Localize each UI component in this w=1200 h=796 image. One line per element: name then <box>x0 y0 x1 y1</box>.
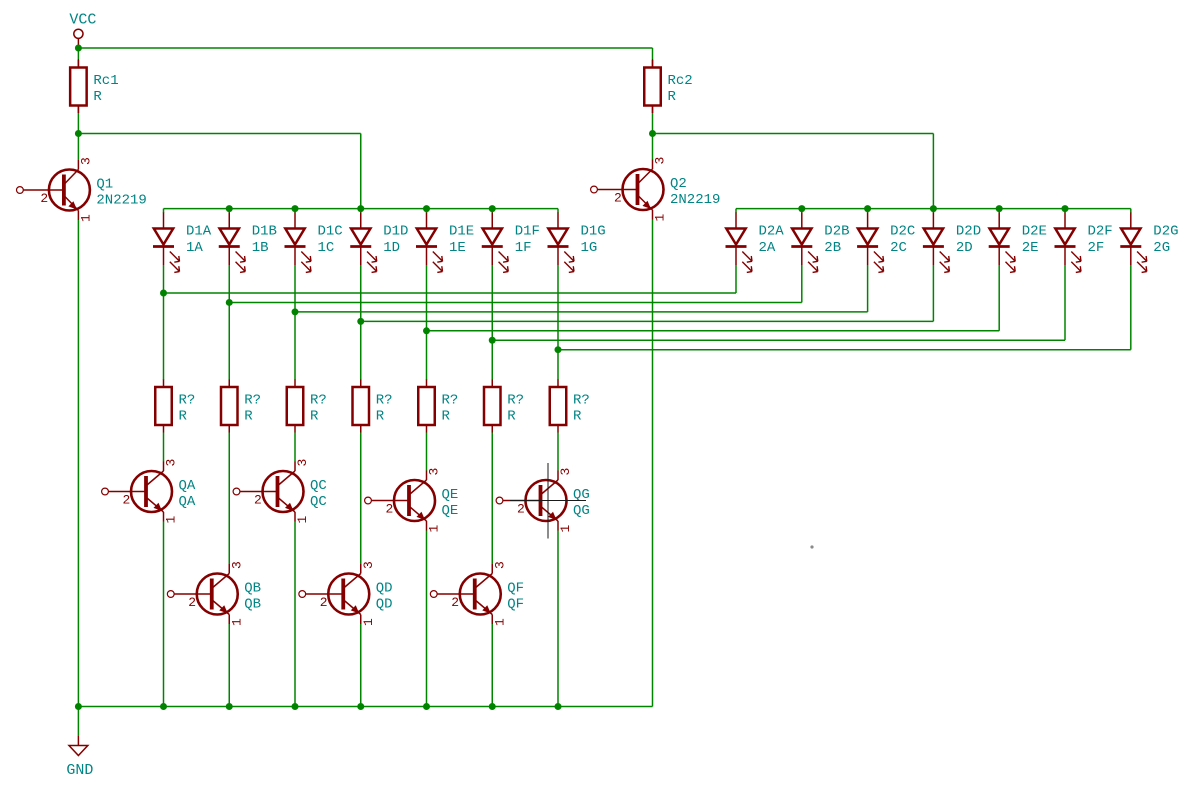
wire bus to D2G <box>1130 209 1132 213</box>
wire bus to D1B <box>228 209 230 213</box>
wire D1B cathode down <box>228 265 230 380</box>
resistor R? column 7 <box>550 380 590 433</box>
wire GND bus <box>78 706 652 708</box>
svg-text:2D: 2D <box>956 240 973 256</box>
wire R to QG collector <box>557 433 559 471</box>
LED D2G <box>1120 213 1178 273</box>
wire row 3 up to D2C <box>867 265 869 312</box>
wire row 6 horizontal <box>492 339 1065 341</box>
wire row 1 up to D2A <box>735 265 737 293</box>
svg-text:R?: R? <box>376 393 393 409</box>
junction GND bus col 7 <box>555 703 562 710</box>
wire bus to D1A <box>163 209 165 213</box>
transistor QD <box>299 561 393 626</box>
wire bus to D1C <box>294 209 296 213</box>
svg-text:1G: 1G <box>581 240 598 256</box>
svg-text:R?: R? <box>573 393 590 409</box>
junction GND bus col 1 <box>160 703 167 710</box>
svg-text:QA: QA <box>179 494 196 510</box>
wire Rc1 to node <box>77 113 79 134</box>
LED D2E <box>989 213 1047 273</box>
wire bus to D2F <box>1064 209 1066 213</box>
svg-text:3: 3 <box>427 468 442 476</box>
wire bus to D1G <box>557 209 559 213</box>
wire R to QC collector <box>294 433 296 462</box>
wire bus to D2E <box>998 209 1000 213</box>
svg-text:1B: 1B <box>252 240 269 256</box>
resistor R? column 2 <box>221 380 261 433</box>
wire QD emitter down <box>360 624 362 707</box>
transistor QA <box>102 459 196 524</box>
svg-text:Q1: Q1 <box>96 177 113 193</box>
svg-text:3: 3 <box>78 157 93 165</box>
LED D2F <box>1055 213 1113 273</box>
wire D1E cathode down <box>426 265 428 380</box>
svg-text:R?: R? <box>507 393 524 409</box>
wire row 3 horizontal <box>295 311 868 313</box>
wire row 1 horizontal <box>164 292 737 294</box>
svg-text:QB: QB <box>244 597 261 613</box>
svg-text:R: R <box>442 409 451 425</box>
cursor crosshair <box>510 463 586 539</box>
resistor R? column 1 <box>155 380 195 433</box>
transistor Q1 <box>17 157 147 222</box>
wire row 4 up to D2D <box>932 265 934 321</box>
svg-text:R: R <box>179 409 188 425</box>
wire row 7 horizontal <box>558 349 1131 351</box>
svg-text:VCC: VCC <box>69 12 96 29</box>
junction D1 bus col 5 <box>423 205 430 212</box>
wire D1 anode bus <box>164 208 559 210</box>
junction D2 bus col 6 <box>1062 205 1069 212</box>
wire R to QB collector <box>228 433 230 565</box>
wire Q2 collector <box>652 134 654 160</box>
svg-text:1F: 1F <box>515 240 532 256</box>
resistor R? column 6 <box>484 380 524 433</box>
LED D2D <box>923 213 981 273</box>
wire Q2 emitter to GND bus <box>652 220 654 707</box>
junction D2 bus col 3 <box>864 205 871 212</box>
LED D1G <box>548 213 606 273</box>
svg-text:D1E: D1E <box>449 224 474 240</box>
wire QB emitter down <box>228 624 230 707</box>
svg-text:R?: R? <box>179 393 196 409</box>
svg-text:QD: QD <box>376 581 393 597</box>
junction GND bus col 3 <box>292 703 299 710</box>
LED D1F <box>482 213 540 273</box>
wire D1A cathode down <box>163 265 165 380</box>
wire QF emitter down <box>491 624 493 707</box>
svg-text:2: 2 <box>254 493 262 508</box>
junction D1 bus col 4 <box>357 205 364 212</box>
svg-text:D2B: D2B <box>824 224 849 240</box>
wire R to QD collector <box>360 433 362 565</box>
junction GND bus col 2 <box>226 703 233 710</box>
Rc2 bottom pin <box>652 106 654 114</box>
power symbol VCC <box>69 12 96 49</box>
LED D1A <box>153 213 212 273</box>
svg-text:1: 1 <box>164 516 179 524</box>
junction D2 bus col 5 <box>996 205 1003 212</box>
svg-text:1: 1 <box>361 618 376 626</box>
wire row 7 up to D2G <box>1130 265 1132 350</box>
wire QE emitter down <box>426 531 428 707</box>
svg-text:1: 1 <box>229 618 244 626</box>
svg-text:D1F: D1F <box>515 224 540 240</box>
svg-text:2N2219: 2N2219 <box>96 193 146 209</box>
LED D2B <box>791 213 849 273</box>
svg-text:D2G: D2G <box>1153 224 1178 240</box>
svg-text:D1G: D1G <box>581 224 606 240</box>
wire D1G cathode down <box>557 265 559 380</box>
wire row 5 horizontal <box>427 330 1000 332</box>
svg-text:D2E: D2E <box>1022 224 1047 240</box>
wire QG emitter down <box>557 531 559 707</box>
svg-text:Q2: Q2 <box>670 176 687 192</box>
svg-text:D1A: D1A <box>186 224 212 240</box>
wire row 4 horizontal <box>361 320 934 322</box>
wire D1C cathode down <box>294 265 296 380</box>
wire row 6 up to D2F <box>1064 265 1066 340</box>
svg-text:D1B: D1B <box>252 224 277 240</box>
resistor Rc2 <box>644 60 692 113</box>
svg-text:3: 3 <box>492 561 507 569</box>
junction D2 bus col 4 <box>930 205 937 212</box>
svg-text:1D: 1D <box>383 240 400 256</box>
resistor R? column 3 <box>287 380 327 433</box>
svg-text:1E: 1E <box>449 240 466 256</box>
svg-text:QF: QF <box>507 597 524 613</box>
svg-text:D2D: D2D <box>956 224 981 240</box>
wire row 2 up to D2B <box>801 265 803 302</box>
svg-text:2: 2 <box>386 502 394 517</box>
svg-text:2C: 2C <box>890 240 907 256</box>
wire node2 horizontal <box>653 133 934 135</box>
svg-text:D2F: D2F <box>1088 224 1113 240</box>
svg-text:1A: 1A <box>186 240 203 256</box>
svg-text:R: R <box>668 89 677 105</box>
svg-text:2G: 2G <box>1153 240 1170 256</box>
LED D1B <box>219 213 277 273</box>
wire VCC top bus <box>78 47 652 49</box>
svg-text:R: R <box>244 409 253 425</box>
svg-text:1: 1 <box>558 525 573 533</box>
wire R to QA collector <box>163 433 165 462</box>
wire QC emitter down <box>294 522 296 707</box>
wire bus to D1E <box>426 209 428 213</box>
LED D1C <box>285 213 343 273</box>
wire Rc2 to node <box>652 113 654 134</box>
svg-text:R: R <box>507 409 516 425</box>
svg-text:3: 3 <box>361 561 376 569</box>
LED D1E <box>416 213 474 273</box>
svg-text:3: 3 <box>558 468 573 476</box>
svg-text:2A: 2A <box>759 240 776 256</box>
Rc1 top pin <box>77 59 79 68</box>
svg-text:3: 3 <box>653 157 668 165</box>
junction row 3 <box>292 308 299 315</box>
svg-text:1: 1 <box>295 516 310 524</box>
svg-text:2: 2 <box>188 595 196 610</box>
junction row 7 <box>555 346 562 353</box>
svg-text:D1C: D1C <box>318 224 343 240</box>
svg-text:1: 1 <box>427 525 442 533</box>
svg-text:2F: 2F <box>1088 240 1105 256</box>
junction GND bus col 6 <box>489 703 496 710</box>
junction GND bus Q1 <box>75 703 82 710</box>
wire D1F cathode down <box>491 265 493 380</box>
wire node2 down to D2 bus <box>932 134 934 209</box>
svg-text:2B: 2B <box>824 240 841 256</box>
svg-text:R: R <box>573 409 582 425</box>
svg-text:QB: QB <box>244 581 261 597</box>
resistor R? column 4 <box>353 380 393 433</box>
svg-text:R?: R? <box>244 393 261 409</box>
svg-text:1: 1 <box>653 214 668 222</box>
wire node1 down to D1 bus <box>360 134 362 209</box>
junction node1 <box>75 130 82 137</box>
svg-text:1: 1 <box>78 214 93 222</box>
svg-text:D2C: D2C <box>890 224 915 240</box>
svg-text:2: 2 <box>320 595 328 610</box>
junction row 2 <box>226 299 233 306</box>
junction row 6 <box>489 337 496 344</box>
transistor QF <box>430 561 524 626</box>
wire R to QE collector <box>426 433 428 471</box>
svg-text:QA: QA <box>179 478 196 494</box>
wire to Rc2 top <box>652 48 654 59</box>
svg-text:D1D: D1D <box>383 224 408 240</box>
resistor R? column 5 <box>418 380 458 433</box>
wire QA emitter down <box>163 522 165 707</box>
wire bus to D1D <box>360 209 362 213</box>
svg-text:QE: QE <box>442 503 459 519</box>
junction row 1 <box>160 290 167 297</box>
Rc1 bottom pin <box>77 106 79 114</box>
wire row 5 up to D2E <box>998 265 1000 331</box>
LED D2A <box>726 213 785 273</box>
svg-text:D2A: D2A <box>759 224 785 240</box>
LED D1D <box>350 213 408 273</box>
junction D1 bus col 2 <box>226 205 233 212</box>
transistor QC <box>233 459 327 524</box>
wire bus to D2B <box>801 209 803 213</box>
svg-text:QE: QE <box>442 487 459 503</box>
svg-text:3: 3 <box>295 459 310 467</box>
svg-text:R: R <box>93 89 102 105</box>
svg-text:2E: 2E <box>1022 240 1039 256</box>
svg-text:QC: QC <box>310 494 327 510</box>
wire to Rc1 top <box>77 48 79 59</box>
transistor QG <box>496 468 590 533</box>
svg-text:2: 2 <box>451 595 459 610</box>
junction GND bus col 4 <box>357 703 364 710</box>
wire Q1 collector <box>77 134 79 161</box>
svg-text:QF: QF <box>507 581 524 597</box>
junction row 4 <box>357 318 364 325</box>
transistor QE <box>365 468 459 533</box>
svg-text:QD: QD <box>376 597 393 613</box>
wire D2 anode bus <box>736 208 1131 210</box>
wire bus to D2C <box>867 209 869 213</box>
Rc2 top pin <box>652 59 654 68</box>
junction node2 <box>649 130 656 137</box>
svg-text:2: 2 <box>40 191 48 206</box>
svg-text:2: 2 <box>614 191 622 206</box>
junction VCC node <box>75 45 82 52</box>
transistor Q2 <box>591 157 721 222</box>
svg-text:1: 1 <box>492 618 507 626</box>
svg-text:R?: R? <box>442 393 459 409</box>
svg-text:2: 2 <box>517 502 525 517</box>
wire D1D cathode down <box>360 265 362 380</box>
svg-text:GND: GND <box>66 762 93 779</box>
svg-text:Rc1: Rc1 <box>93 73 118 89</box>
wire row 2 horizontal <box>229 301 802 303</box>
svg-text:QC: QC <box>310 478 327 494</box>
svg-text:Rc2: Rc2 <box>668 73 693 89</box>
svg-text:1C: 1C <box>318 240 335 256</box>
svg-text:QG: QG <box>573 503 590 519</box>
junction D1 bus col 3 <box>292 205 299 212</box>
svg-text:2: 2 <box>123 493 131 508</box>
wire node1 horizontal <box>78 133 360 135</box>
wire R to QF collector <box>491 433 493 565</box>
junction D1 bus col 6 <box>489 205 496 212</box>
junction row 5 <box>423 327 430 334</box>
wire bus to D1F <box>491 209 493 213</box>
wire Q1 emitter to GND bus <box>77 220 79 707</box>
wire bus to D2A <box>735 209 737 213</box>
svg-text:R: R <box>376 409 385 425</box>
transistor QB <box>167 561 261 626</box>
svg-text:R?: R? <box>310 393 327 409</box>
LED D2C <box>857 213 915 273</box>
stray dot <box>810 545 813 548</box>
svg-text:3: 3 <box>229 561 244 569</box>
svg-text:3: 3 <box>164 459 179 467</box>
svg-text:2N2219: 2N2219 <box>670 192 720 208</box>
svg-text:R: R <box>310 409 319 425</box>
junction D2 bus col 2 <box>798 205 805 212</box>
power symbol GND <box>66 707 93 780</box>
junction GND bus col 5 <box>423 703 430 710</box>
wire bus to D2D <box>932 209 934 213</box>
resistor Rc1 <box>70 60 118 113</box>
